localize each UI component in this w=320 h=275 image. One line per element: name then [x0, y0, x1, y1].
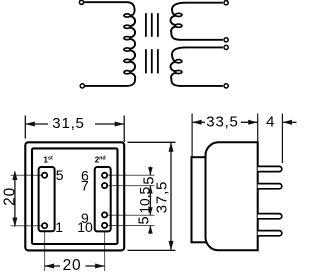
svg-text:10,5: 10,5: [137, 186, 152, 213]
svg-text:20: 20: [2, 187, 19, 206]
svg-text:20: 20: [63, 257, 82, 274]
svg-text:10: 10: [77, 219, 93, 235]
svg-text:37,5: 37,5: [153, 181, 170, 213]
svg-text:5: 5: [137, 216, 153, 224]
svg-text:33,5: 33,5: [206, 114, 238, 131]
svg-text:7: 7: [81, 178, 89, 194]
svg-text:31,5: 31,5: [52, 115, 84, 132]
svg-text:5: 5: [56, 167, 64, 183]
svg-text:4: 4: [266, 114, 274, 131]
svg-text:1: 1: [55, 219, 63, 235]
